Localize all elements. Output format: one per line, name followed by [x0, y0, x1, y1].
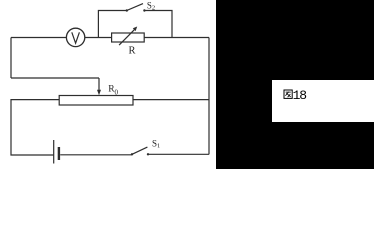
- svg-text:8: 8: [299, 88, 307, 103]
- svg-text:R: R: [129, 46, 136, 57]
- svg-text:R0: R0: [108, 85, 118, 97]
- svg-text:S1: S1: [152, 138, 160, 149]
- svg-text:S2: S2: [147, 0, 155, 11]
